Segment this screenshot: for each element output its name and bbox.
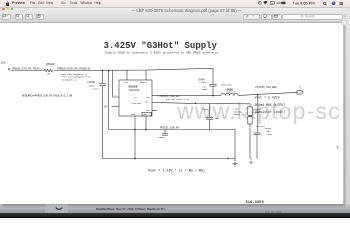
svg-text:PP3425_S3H_REG: PP3425_S3H_REG [256,86,278,89]
svg-text:BOOST: BOOST [140,81,147,84]
svg-text:350mA MAX OUTPUT: 350mA MAX OUTPUT [255,103,286,107]
svg-text:PPDCDC_S3H_FB: PPDCDC_S3H_FB [160,126,179,129]
svg-text:518-3359: 518-3359 [246,201,265,205]
svg-text:RESEARCH=PPBUS_G3H_RX_P800,R:G: RESEARCH=PPBUS_G3H_RX_P800,R:G;J BN [22,95,73,98]
svg-text:1.0uF: 1.0uF [213,117,220,120]
svg-text:W10: W10 [1,62,6,65]
svg-text:GND: GND [132,113,137,116]
svg-text:Search: Search [305,14,316,18]
svg-text:12547Ua: 12547Ua [129,89,140,92]
svg-text:VIN: VIN [124,81,129,84]
svg-text:1.0uF: 1.0uF [92,88,99,91]
svg-text:100: 100 [47,73,52,76]
svg-text:BD0/074R: BD0/074R [227,90,237,93]
svg-text:22uF: 22uF [267,133,273,136]
svg-text:3.425V "G3Hot" Supply: 3.425V "G3Hot" Supply [104,41,218,51]
svg-text:R5992 1%: R5992 1% [234,113,245,116]
svg-text:Tue 8:05 PM: Tue 8:05 PM [293,0,315,5]
svg-text:Supply VDDR to quiescent 3.425: Supply VDDR to quiescent 3.425V delivere… [105,51,219,55]
svg-text:CROSS/18A: CROSS/18A [221,84,233,87]
svg-text:EN: EN [147,96,150,99]
svg-text:»: » [344,15,346,19]
svg-text:R5800: R5800 [46,63,55,66]
svg-text:PPBUS_G3H_RX_P800_R: PPBUS_G3H_RX_P800_R [57,67,90,70]
svg-text:1-43uF: 1-43uF [198,81,207,84]
svg-text:C5990: C5990 [158,136,165,139]
svg-text:NC: NC [104,106,108,109]
svg-text:BD: BD [145,100,148,103]
svg-text:(Resistor limit): (Resistor limit) [255,110,286,114]
svg-text:TAB: TAB [143,113,148,116]
svg-text:Vout = 1.23V * (1 + Ra / Rb): Vout = 1.23V * (1 + Ra / Rb) [148,168,205,173]
svg-text:PPBUS_G3H_RX_P800: PPBUS_G3H_RX_P800 [12,67,40,70]
svg-text:C5989: C5989 [202,108,209,111]
svg-text:CN: CN [134,96,137,99]
svg-text:MICROAMPS DC: MICROAMPS DC [62,79,78,82]
svg-text:FOR THE SYSTEM 1 OK: FOR THE SYSTEM 1 OK [166,98,190,101]
svg-text:0603: 0603 [202,88,208,91]
svg-text:FB: FB [147,109,150,112]
svg-text:1: 1 [299,86,301,89]
svg-text:.: . [316,88,317,91]
svg-text:Vout = 3.425V: Vout = 3.425V [255,96,280,100]
svg-text:LT3470AL: LT3470AL [131,102,142,105]
